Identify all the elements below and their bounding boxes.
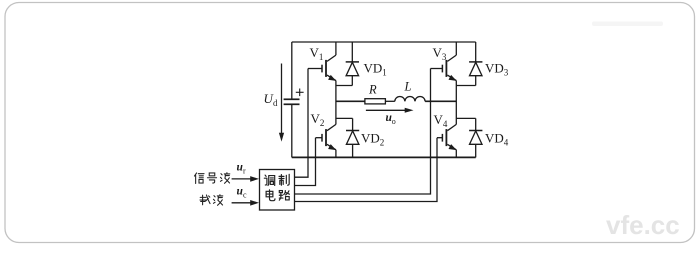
wire V4 gate lead: [437, 137, 442, 139]
label 调制 (modulate): [264, 174, 289, 185]
arrow carrier input uc: [232, 200, 259, 206]
label V2: [311, 111, 325, 128]
label R: [368, 83, 377, 97]
arrow uo: [366, 108, 414, 113]
arrow signal input ur: [232, 176, 259, 182]
label L: [404, 80, 412, 94]
diode VD1: [346, 42, 359, 86]
wire bottom rail: [292, 156, 476, 158]
label V4: [434, 112, 448, 129]
svg-text:vfe.cc: vfe.cc: [606, 210, 680, 240]
wire VD3 to emitter node: [456, 85, 475, 87]
label V1: [310, 45, 324, 62]
inductor L: [395, 97, 425, 102]
svg-text:L: L: [404, 80, 412, 94]
label V3: [433, 45, 447, 62]
watermark vfe.cc: [606, 210, 680, 240]
label uo: [386, 112, 396, 126]
label VD2: [361, 131, 384, 148]
diode VD2: [346, 118, 359, 157]
diode VD3: [469, 42, 482, 86]
wire R to L: [385, 100, 394, 102]
label VD3: [485, 61, 509, 78]
arrow Ud: [279, 64, 284, 142]
wire gate V3 to modulator: [295, 69, 431, 195]
wire V3 gate lead: [431, 68, 443, 70]
wire gate V1 to modulator: [295, 69, 309, 178]
wire gate V2 to modulator: [295, 138, 316, 186]
label VD4: [485, 131, 509, 148]
label 信号波 (signal wave): [194, 173, 229, 184]
wire L to right leg: [425, 100, 456, 102]
label ur: [237, 162, 247, 176]
wire V1 gate lead: [308, 68, 322, 70]
wire V4 collector node to VD4: [456, 117, 475, 119]
wire left rail lower: [291, 104, 293, 157]
resistor R: [365, 99, 386, 104]
label uc: [237, 186, 248, 200]
capacitor plus sign: [296, 89, 304, 97]
wire V2 gate lead: [316, 137, 323, 139]
wire left rail upper: [291, 42, 293, 99]
transistor V4: [442, 124, 456, 157]
wire mid rail left: [336, 100, 365, 102]
wire VD1 to emitter node: [336, 85, 352, 87]
svg-text:c: c: [243, 191, 247, 200]
label Ud: [264, 91, 279, 108]
svg-text:R: R: [368, 83, 377, 97]
wire V2 collector node to VD2: [336, 117, 353, 119]
diode VD4: [469, 118, 482, 157]
wire gate V4 to modulator: [295, 138, 438, 202]
label 载波 (carrier wave): [200, 195, 223, 206]
capacitor C plates: [284, 99, 300, 104]
modulation circuit box: [260, 170, 295, 211]
svg-text:r: r: [243, 167, 246, 176]
svg-text:d: d: [273, 98, 278, 108]
label VD1: [364, 61, 387, 78]
transistor V3: [442, 42, 456, 124]
wire top rail: [292, 41, 476, 43]
transistor V2: [322, 124, 336, 157]
svg-text:o: o: [392, 117, 396, 126]
transistor V1: [322, 42, 336, 124]
label 电路 (circuit): [266, 190, 289, 201]
watermark top right: [592, 22, 663, 27]
